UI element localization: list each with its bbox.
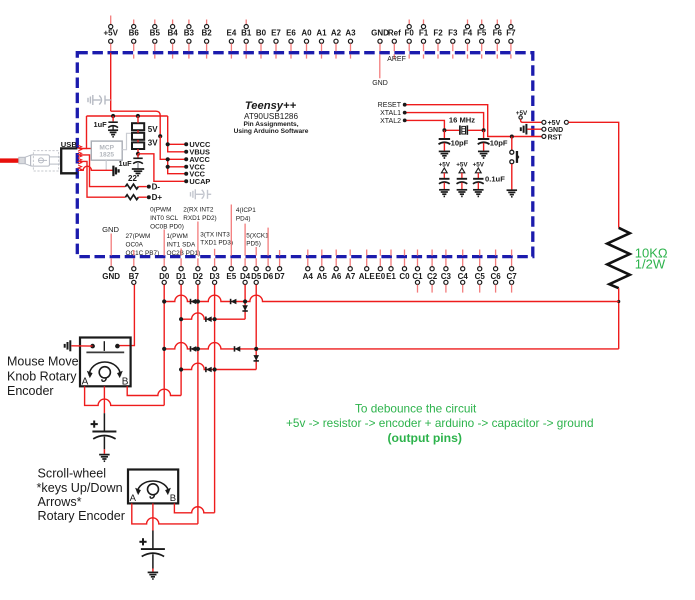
wire column D0 — [163, 285, 165, 406]
svg-text:D7: D7 — [274, 272, 285, 281]
pin label UCAP — [184, 179, 188, 183]
jumper stubs — [137, 116, 139, 123]
pin +5V (top) — [103, 16, 118, 52]
pin C4 (bottom) — [458, 258, 469, 292]
svg-text:D2: D2 — [193, 272, 204, 281]
pin label VCC — [184, 172, 188, 176]
encoder ENC2 (scroll) box — [128, 470, 178, 504]
diode D4 (down) — [242, 305, 248, 311]
pin B2 (top) — [201, 20, 212, 59]
svg-text:3(TX INT3: 3(TX INT3 — [200, 231, 230, 238]
pin A6 (bottom) — [331, 258, 342, 281]
svg-text:+5V: +5V — [103, 28, 118, 37]
pin E1 (bottom) — [386, 258, 396, 281]
ENC2 rotary symbol — [138, 481, 169, 493]
ground — [99, 455, 110, 462]
pin C1 (bottom) — [412, 258, 423, 292]
svg-text:C0: C0 — [399, 272, 410, 281]
diode row1 b — [231, 299, 237, 305]
wire row 4 — [181, 363, 256, 369]
wire +5V drop — [110, 53, 112, 111]
svg-text:B3: B3 — [184, 28, 195, 37]
wire ENC1 B to D1 — [127, 386, 181, 395]
svg-text:C7: C7 — [506, 272, 517, 281]
svg-text:B6: B6 — [129, 28, 140, 37]
USB plug — [19, 151, 60, 171]
wire ENC1 cap — [103, 386, 105, 413]
svg-text:F5: F5 — [477, 28, 487, 37]
pin C3 (bottom) — [441, 258, 452, 292]
wire column D4 — [244, 285, 246, 320]
wire crystal link — [444, 129, 483, 131]
pin A5 (bottom) — [317, 258, 328, 281]
wire XTAL2 — [405, 120, 445, 130]
pin A1 (top) — [316, 28, 327, 58]
svg-text:D5: D5 — [251, 272, 262, 281]
svg-text:27(PWM: 27(PWM — [126, 233, 151, 240]
svg-text:RESET: RESET — [378, 102, 402, 109]
svg-text:C2: C2 — [427, 272, 438, 281]
pin C6 (bottom) — [490, 258, 501, 292]
svg-text:XTAL1: XTAL1 — [380, 110, 401, 117]
svg-text:F7: F7 — [506, 28, 516, 37]
wire RESET to RST — [405, 105, 542, 137]
svg-text:Encoder: Encoder — [7, 384, 54, 398]
svg-text:1/2W: 1/2W — [635, 257, 666, 272]
svg-text:B1: B1 — [241, 28, 252, 37]
pin D6 (bottom) — [263, 258, 274, 281]
wire VCC column — [168, 159, 187, 173]
svg-text:0(PWM: 0(PWM — [150, 206, 171, 213]
ground — [439, 190, 450, 197]
svg-text:INT0 SCL: INT0 SCL — [150, 215, 179, 222]
wire column D2 — [197, 285, 199, 524]
gray trace MCP out — [122, 133, 132, 149]
USB connector J1 — [61, 148, 77, 173]
wire ENC1 switch to gnd — [71, 345, 92, 347]
capacitor ENC1 (polarized) — [103, 413, 105, 431]
svg-text:1825: 1825 — [99, 152, 114, 159]
pin A4 (bottom) — [303, 258, 314, 281]
svg-text:Ref: Ref — [388, 28, 401, 37]
wire USB D+ — [80, 161, 126, 197]
ground — [507, 190, 518, 197]
svg-text:AT90USB1286: AT90USB1286 — [244, 112, 298, 121]
svg-text:RST: RST — [548, 134, 563, 141]
wire VCC tap — [168, 166, 187, 168]
svg-text:PD5): PD5) — [246, 241, 261, 248]
svg-text:F3: F3 — [448, 28, 458, 37]
svg-text:A2: A2 — [331, 28, 342, 37]
pin B1 (top) — [241, 20, 252, 59]
wire column D1 — [180, 285, 182, 396]
pin function text 27(PWM — [126, 233, 160, 257]
capacitor 0.1uF — [477, 173, 479, 178]
wire USB D- — [80, 155, 126, 187]
ground — [132, 169, 144, 176]
wire MCP vin — [87, 148, 92, 150]
ground (sideways) ENC1 — [65, 340, 71, 351]
svg-text:RXD1 PD2): RXD1 PD2) — [183, 215, 216, 222]
gray bypass cap icon top-left — [88, 95, 111, 105]
pin B4 (top) — [167, 20, 178, 59]
resistor (D+) — [125, 195, 138, 200]
svg-text:A7: A7 — [345, 272, 356, 281]
svg-text:1uF: 1uF — [93, 120, 107, 129]
crystal Y1 16 MHz — [459, 125, 468, 136]
plus sign — [139, 538, 146, 545]
svg-text:OC1C PB7): OC1C PB7) — [126, 250, 160, 257]
svg-text:D+: D+ — [152, 193, 163, 202]
pin F4 (top) — [463, 20, 473, 59]
pin A7 (bottom) — [345, 258, 356, 281]
svg-text:Arrows*: Arrows* — [38, 495, 82, 509]
svg-text:INT1 SDA: INT1 SDA — [167, 241, 197, 248]
svg-text:E4: E4 — [227, 28, 237, 37]
svg-text:MCP: MCP — [99, 144, 114, 151]
pin B6 (top) — [129, 20, 140, 59]
svg-text:GND: GND — [102, 225, 119, 234]
pin B0 (top) — [256, 28, 267, 58]
svg-text:ALE: ALE — [359, 272, 376, 281]
pin label UVCC — [184, 142, 188, 146]
wire ENC2 A to D2 — [132, 503, 198, 524]
wire row 2 — [181, 313, 245, 319]
svg-text:A3: A3 — [345, 28, 356, 37]
svg-text:+5V: +5V — [473, 161, 485, 168]
svg-text:D4: D4 — [240, 272, 251, 281]
Teensy board dashed border — [77, 53, 533, 257]
pin label AVCC — [184, 157, 188, 161]
svg-text:UCAP: UCAP — [189, 177, 210, 186]
ground — [473, 190, 484, 197]
diode row3 a — [191, 346, 197, 352]
wire UVCC/VBUS column — [168, 116, 187, 152]
capacitor C 1uF (top) — [112, 116, 114, 121]
AREF stub — [393, 54, 395, 56]
pin C2 (bottom) — [427, 258, 438, 292]
wire XTAL1 — [405, 113, 484, 131]
pin D4 (bottom) — [240, 258, 251, 284]
pin function text 4(ICP1 — [236, 207, 256, 222]
svg-text:E6: E6 — [286, 28, 296, 37]
svg-text:A6: A6 — [331, 272, 342, 281]
pin function text 0(PWM — [150, 206, 184, 230]
svg-text:C1: C1 — [412, 272, 423, 281]
pin D2 (bottom) — [193, 258, 204, 284]
svg-text:A: A — [130, 493, 137, 504]
svg-text:C4: C4 — [458, 272, 469, 281]
pin C7 (bottom) — [506, 258, 517, 292]
pin F5 (top) — [477, 20, 487, 59]
svg-text:B: B — [170, 493, 176, 504]
pin C5 (bottom) — [475, 258, 486, 292]
svg-text:AREF: AREF — [387, 56, 406, 63]
wire +5V to resistor — [568, 122, 618, 228]
diode D5 (down) — [253, 355, 259, 361]
pin D0 (bottom) — [159, 258, 170, 284]
wire ENC1 A to D0 — [85, 386, 165, 405]
plus sign — [91, 421, 98, 428]
wire resistor to rows — [618, 288, 620, 349]
svg-text:B: B — [122, 376, 129, 387]
node row1 join — [617, 300, 620, 303]
svg-text:B4: B4 — [167, 28, 178, 37]
junction dots — [162, 299, 258, 371]
pin B7 (bottom) — [129, 258, 140, 284]
wire column D5 — [255, 285, 257, 370]
svg-text:PD4): PD4) — [236, 216, 251, 223]
svg-text:F4: F4 — [463, 28, 473, 37]
pin function text 5(XCK1 — [246, 233, 269, 248]
svg-text:B7: B7 — [129, 272, 140, 281]
capacitor ENC2 (polarized) — [152, 531, 154, 549]
svg-text:5(XCK1: 5(XCK1 — [246, 233, 269, 240]
svg-text:E1: E1 — [386, 272, 396, 281]
pin D5 (bottom) — [251, 258, 262, 284]
wire VBUS from USB — [80, 116, 87, 149]
svg-text:C3: C3 — [441, 272, 452, 281]
wire UCAP — [138, 154, 186, 182]
pin D1 (bottom) — [176, 258, 187, 284]
pin E4 (top) — [227, 28, 237, 58]
pin function text 1(PWM — [167, 233, 201, 257]
encoder ENC1 (mouse move) box — [80, 338, 131, 387]
svg-text:F0: F0 — [405, 28, 415, 37]
svg-text:B5: B5 — [150, 28, 161, 37]
svg-text:A4: A4 — [303, 272, 314, 281]
capacitor 0.1uF — [461, 173, 463, 178]
svg-text:C5: C5 — [475, 272, 486, 281]
USB cable — [0, 158, 19, 162]
svg-text:GND: GND — [548, 127, 564, 134]
svg-text:A: A — [82, 376, 89, 387]
pin F2 (top) — [433, 28, 443, 58]
svg-text:*keys Up/Down: *keys Up/Down — [37, 481, 123, 495]
svg-text:16 MHz: 16 MHz — [449, 116, 475, 125]
wire UVCC tap — [168, 143, 187, 145]
svg-text:5V: 5V — [148, 125, 158, 134]
pin F7 (top) — [506, 20, 516, 59]
svg-text:1(PWM: 1(PWM — [167, 233, 188, 240]
svg-text:1uF: 1uF — [118, 159, 132, 168]
jumper pad mid — [132, 133, 144, 140]
pin A2 (top) — [331, 28, 342, 58]
gray trace MCP gnd — [105, 160, 107, 170]
pin E5 (bottom) — [226, 258, 236, 281]
svg-text:OC0B PD0): OC0B PD0) — [150, 223, 184, 230]
svg-text:10pF: 10pF — [490, 138, 508, 147]
wire rail VBUS top — [87, 115, 168, 117]
wire row 3 — [164, 343, 619, 349]
pin ALE (bottom) — [359, 258, 376, 281]
wire AVCC feed — [160, 136, 186, 159]
node D- — [147, 185, 151, 189]
svg-text:F1: F1 — [419, 28, 429, 37]
svg-text:D3: D3 — [209, 272, 220, 281]
resistor 22 (D-) — [125, 184, 138, 189]
pin B3 (top) — [184, 20, 195, 59]
terminal RST — [542, 134, 546, 138]
pin F1 (top) — [419, 20, 429, 59]
ground — [108, 130, 118, 137]
pin function text 3(TX INT3 — [200, 231, 233, 246]
ground icon (sideways) near GND terminal — [521, 124, 527, 135]
svg-text:OC0A: OC0A — [126, 241, 144, 248]
diode row4 — [206, 367, 212, 373]
svg-text:D6: D6 — [263, 272, 274, 281]
node dots — [403, 103, 407, 107]
ground (sideways) USB — [113, 166, 118, 177]
capacitor 10pF — [483, 130, 485, 138]
svg-text:A0: A0 — [301, 28, 312, 37]
pin E7 (top) — [271, 28, 281, 58]
regulator U2 MCP1825 — [91, 141, 122, 160]
capacitor C 1uF (second) — [137, 154, 139, 158]
pin B5 (top) — [150, 20, 161, 59]
svg-text:D1: D1 — [176, 272, 187, 281]
svg-text:XTAL2: XTAL2 — [380, 118, 401, 125]
svg-text:10pF: 10pF — [451, 138, 469, 147]
pin A0 (top) — [301, 28, 312, 58]
wire USB GND — [80, 166, 113, 170]
svg-text:D0: D0 — [159, 272, 170, 281]
pin label VCC — [184, 165, 188, 169]
diode row1 a — [191, 299, 197, 305]
ENC1 rotary symbol — [89, 362, 120, 376]
node rail dots — [111, 114, 115, 118]
pin A3 (top) — [345, 28, 356, 58]
pin D3 (bottom) — [209, 258, 220, 284]
svg-text:4(ICP1: 4(ICP1 — [236, 207, 256, 214]
svg-text:Knob Rotary: Knob Rotary — [7, 370, 77, 384]
pin F0 (top) — [405, 20, 415, 59]
svg-text:+5V: +5V — [439, 161, 451, 168]
ground — [148, 572, 159, 579]
svg-text:(output pins): (output pins) — [388, 431, 462, 445]
diode row3 b — [235, 346, 241, 352]
ground — [439, 151, 450, 158]
terminal GND — [542, 127, 546, 131]
pin D7 (bottom) — [274, 258, 285, 281]
svg-text:TXD1 PD3): TXD1 PD3) — [200, 240, 233, 247]
ground — [478, 151, 489, 158]
GND stub (top) — [379, 54, 381, 78]
svg-text:+5V: +5V — [456, 161, 468, 168]
svg-text:Rotary Encoder: Rotary Encoder — [38, 509, 126, 523]
wire column B7 — [117, 285, 134, 346]
svg-text:A5: A5 — [317, 272, 328, 281]
svg-text:Scroll-wheel: Scroll-wheel — [38, 467, 107, 481]
wire column D3 — [214, 285, 216, 513]
capacitor 10pF — [443, 130, 445, 138]
pin F3 (top) — [448, 28, 458, 58]
svg-text:GND: GND — [102, 272, 120, 281]
svg-text:To debounce the circuit: To debounce the circuit — [355, 402, 477, 416]
ENC1 switch contacts — [90, 344, 95, 349]
pin feed stubs inside — [134, 205, 512, 256]
svg-text:Teensy++: Teensy++ — [245, 100, 297, 112]
svg-text:GND: GND — [371, 28, 389, 37]
svg-text:OC2B PD1): OC2B PD1) — [167, 250, 201, 257]
svg-text:GND: GND — [372, 80, 388, 87]
node jumper-cap — [136, 152, 140, 156]
capacitor 0.1uF — [443, 173, 445, 178]
gray bypass cap icon (mid) — [191, 189, 212, 199]
USB connector pins — [78, 145, 81, 151]
svg-text:A1: A1 — [316, 28, 327, 37]
node taps — [166, 142, 170, 146]
pin GND (bottom) — [102, 258, 120, 281]
node D+ — [147, 195, 151, 199]
svg-text:2(RX INT2: 2(RX INT2 — [183, 206, 214, 213]
terminal +5V — [542, 120, 546, 124]
pin GND (top) — [371, 28, 389, 51]
pin E0 (bottom) — [375, 258, 385, 281]
svg-text:E5: E5 — [226, 272, 236, 281]
pin C0 (bottom) — [399, 258, 410, 281]
svg-text:Using Arduino Software: Using Arduino Software — [234, 128, 309, 135]
svg-text:C6: C6 — [490, 272, 501, 281]
wire ENC2 B to D3 — [174, 503, 214, 512]
svg-text:B2: B2 — [201, 28, 212, 37]
svg-text:F6: F6 — [493, 28, 503, 37]
svg-text:B0: B0 — [256, 28, 267, 37]
resistor R1 10K — [607, 228, 630, 288]
pin function text 2(RX INT2 — [183, 206, 216, 222]
pin E6 (top) — [286, 28, 296, 58]
svg-text:+5v -> resistor -> encoder + a: +5v -> resistor -> encoder + arduino -> … — [286, 416, 594, 430]
pin Ref (top) — [388, 28, 401, 58]
svg-text:D-: D- — [152, 183, 161, 192]
ground — [457, 190, 468, 197]
pin F6 (top) — [493, 20, 503, 59]
diode row2 — [206, 316, 212, 322]
push button SW1 — [511, 137, 513, 151]
jumper pad 5V — [132, 123, 144, 130]
wire row 1 — [164, 295, 619, 301]
wire +5V rail A — [111, 111, 161, 136]
svg-text:E7: E7 — [271, 28, 281, 37]
svg-text:0.1uF: 0.1uF — [485, 174, 505, 183]
wire ENC2 cap — [152, 503, 154, 530]
svg-text:22: 22 — [128, 174, 137, 183]
pin label VBUS — [184, 150, 188, 154]
svg-text:USB: USB — [61, 140, 78, 149]
svg-text:E0: E0 — [375, 272, 385, 281]
jumper pad 3V — [132, 142, 144, 149]
svg-text:3V: 3V — [148, 138, 158, 147]
svg-text:F2: F2 — [433, 28, 443, 37]
svg-text:Mouse Move: Mouse Move — [7, 354, 79, 368]
